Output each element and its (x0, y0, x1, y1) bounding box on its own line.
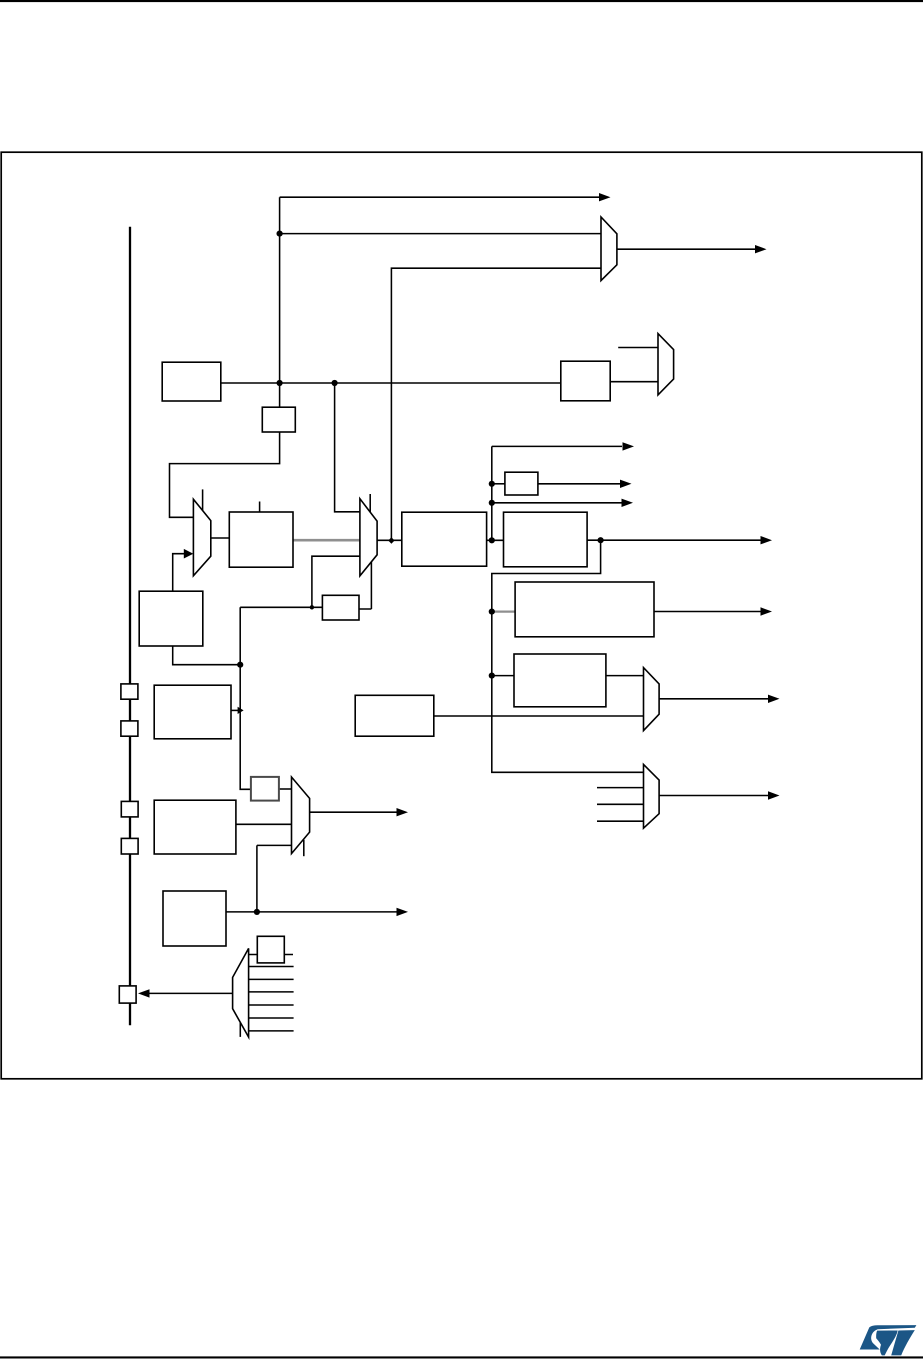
arrowhead MCO pin (left) (138, 989, 150, 997)
arrowhead LSI output (397, 908, 409, 916)
junction HSI rail left (277, 380, 283, 386)
junction PCLK tap (598, 537, 604, 543)
box U11 peripheral clock gate (515, 582, 654, 637)
wire MCO mux output to MCO pin arrow (149, 992, 233, 994)
junction PCLK rail 1 (489, 609, 495, 615)
wire PLL-source mux select stub (202, 489, 204, 510)
pin-boundary bus (129, 227, 131, 1025)
arrowhead mux U1 output (755, 245, 767, 253)
arrowhead mux U13 output (768, 791, 780, 799)
arrowhead PCLK output (761, 536, 773, 544)
page bottom rule (0, 1356, 923, 1358)
arrowhead flash clock (599, 193, 611, 201)
box U12 timer multiplier (514, 654, 606, 707)
arrowhead HCLK tap (622, 499, 634, 507)
wire PLLXTPRE box bottom to HSE net (173, 646, 241, 665)
wire HCLK tap arrow (492, 502, 622, 504)
junction SYSCLK diamond (388, 537, 394, 544)
box U1 HSI RC oscillator (162, 362, 221, 401)
junction LSI branch (254, 909, 260, 915)
box U7 prescaler to mux U2 (561, 361, 610, 401)
wire HSE net to USB divider box (240, 606, 322, 608)
figure frame (1, 152, 922, 1079)
wire prescaler U7 output to mux U2 (610, 381, 658, 383)
pin MCO (119, 986, 136, 1003)
arrowhead RTC mux output (397, 808, 409, 816)
box U16 LSI RC (163, 891, 226, 946)
mux M2 CCO mux (658, 334, 674, 395)
wire HCLK riser (492, 446, 622, 540)
wire HSI to flash arrow (280, 196, 600, 198)
wire system mux select stub (369, 494, 371, 513)
wire USB divider to system mux slope (359, 561, 371, 609)
junction HSE net tee (237, 662, 243, 668)
box U5 PLL (229, 512, 293, 567)
box U3 PLLXTPRE divider (139, 591, 203, 646)
wire RTC mux select stub (303, 840, 305, 856)
wire HSE vertical net (240, 607, 251, 789)
wire PLLXTPRE box to PLL-source mux arrow (173, 554, 184, 591)
wire mux U12 output arrow (659, 698, 768, 700)
arrowhead timer mux output (768, 695, 780, 703)
junction HSI/mux-U1 (277, 231, 283, 237)
mux M0 PLL source mux (193, 499, 210, 576)
junction HSI rail right (332, 380, 338, 386)
mux M3 timer clock mux (644, 668, 660, 731)
wire divider U9 output arrow (538, 483, 620, 485)
arrowhead divider U9 output (620, 480, 632, 488)
junction HCLK to divider (489, 481, 495, 487)
wire LSI output arrow and branch (226, 845, 397, 912)
pin OSC_IN (121, 684, 138, 699)
mux M1 top output mux (601, 217, 617, 281)
mux M6 MCO source mux (left pointing) (233, 948, 249, 1037)
arrowhead HCLK top (623, 442, 635, 450)
wire mux U1 output arrow (617, 248, 755, 250)
ST logo (860, 1325, 917, 1355)
wire HSE OSC output arrow to net (231, 709, 240, 711)
page top rule (0, 0, 923, 2)
wire stub to divider box U9 (492, 483, 505, 485)
box U10 APB prescaler (504, 512, 588, 567)
mux M5 RTC clock mux (292, 777, 310, 854)
box U2 divider /2 (262, 407, 295, 432)
wire ADC feed long line (434, 715, 643, 717)
wire PLLCLK gray (293, 539, 360, 542)
wire USB divider loop to system mux lower input (312, 556, 360, 607)
wire HSI vertical trunk (279, 197, 281, 406)
wire MCO mux input stubs (249, 955, 294, 1031)
box U9 divider (505, 472, 538, 495)
wire gray stub to peripheral clock box (492, 610, 515, 612)
wire RTC divider to RTC mux (279, 788, 292, 790)
arrowhead HSE into net (238, 707, 244, 714)
box U6 USB prescaler (322, 595, 359, 620)
box U13 ADC prescaler (355, 695, 434, 736)
wire SYSCLK riser to mux U1 lower input (391, 268, 601, 540)
arrowhead peripheral clock output (761, 607, 773, 615)
wire divider /2 to PLL-source mux upper input (170, 432, 280, 517)
box U14 LSE OSC (154, 800, 236, 854)
mux M4 peripheral mux (644, 764, 660, 828)
wire HSI to system mux upper input (335, 383, 360, 512)
box U15 RTC divider (gray) (251, 777, 279, 801)
junction HCLK tap (489, 500, 495, 506)
wire stub to timer multiplier (492, 675, 514, 677)
arrowhead into PLL source mux (184, 549, 194, 559)
wire PLL box select stub (259, 502, 261, 513)
wire HSI distribution rail (221, 382, 561, 384)
wire system mux output to AHB prescaler (377, 539, 402, 541)
wire AHB prescaler output (487, 539, 504, 541)
pin OSC32_IN (121, 801, 138, 817)
pin OSC_OUT (121, 721, 138, 736)
box U8 AHB prescaler (402, 512, 487, 566)
wire mux U13 input stubs (597, 788, 643, 822)
wire HSI to mux U1 upper input (280, 233, 601, 235)
wire mux U2 upper input stub (618, 347, 658, 349)
junction HCLK on AHB output (489, 537, 495, 543)
junction PCLK rail 2 (489, 673, 495, 679)
box U4 HSE OSC (154, 685, 231, 739)
mux MS system clock mux (360, 499, 377, 576)
wire LSE OSC to RTC mux (236, 823, 292, 825)
pin OSC32_OUT (121, 838, 138, 854)
wire MCO mux select stub (239, 1022, 241, 1037)
wire PLL-source mux output (211, 537, 230, 539)
box U17 MCO divider (257, 936, 284, 963)
wire PCLK feed jog (492, 540, 644, 772)
junction USB loop tee (310, 605, 314, 609)
wire timer multiplier to mux U12 (606, 675, 644, 677)
wire APB prescaler output arrow (587, 539, 760, 541)
wire mux U13 output arrow (659, 795, 768, 797)
wire peripheral clock box output arrow (654, 611, 761, 613)
wire RTC mux output arrow (310, 811, 397, 813)
